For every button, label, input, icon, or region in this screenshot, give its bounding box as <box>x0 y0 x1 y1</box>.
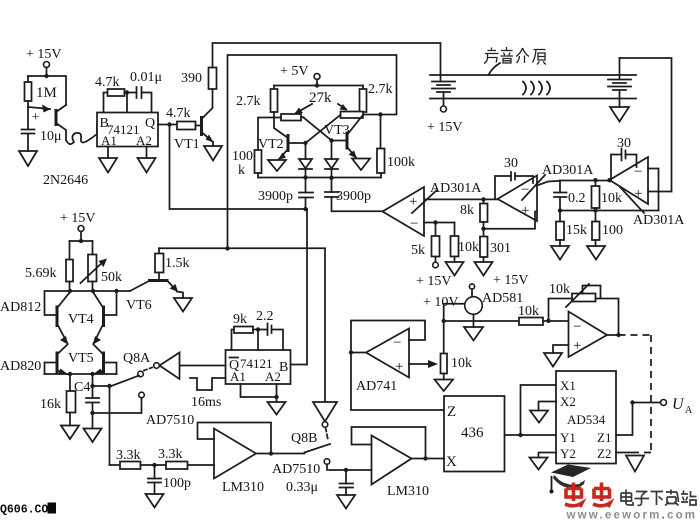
resistor 10k feedback U3 <box>592 178 623 213</box>
wire LM310-1 input <box>188 464 215 466</box>
svg-text:Z2: Z2 <box>597 446 611 461</box>
svg-text:301: 301 <box>490 241 511 256</box>
wire C4 top to switch and filter <box>93 384 112 465</box>
wire U3 minus to divider <box>648 169 659 211</box>
svg-text:100k: 100k <box>387 155 415 170</box>
svg-text:+ 15V: + 15V <box>60 211 96 226</box>
svg-text:10k: 10k <box>601 191 622 206</box>
svg-text:+ 15V: + 15V <box>427 120 463 135</box>
transistor VT4 pair right <box>93 291 117 345</box>
svg-text:−: − <box>573 319 581 335</box>
svg-text:Q: Q <box>145 116 155 131</box>
watermark site name characters <box>621 490 697 506</box>
svg-text:A: A <box>685 405 693 416</box>
svg-text:10k: 10k <box>549 282 570 297</box>
svg-text:2.7k: 2.7k <box>368 82 393 97</box>
wire U1 minus row <box>424 220 455 224</box>
svg-text:U: U <box>672 396 685 413</box>
svg-text:0.01μ: 0.01μ <box>130 70 162 85</box>
svg-text:−: − <box>410 216 418 232</box>
svg-text:10k: 10k <box>451 356 472 371</box>
potentiometer 10k <box>441 321 473 380</box>
transistor 2N2646 UJT <box>28 105 88 189</box>
ground under 100 <box>587 246 605 260</box>
capacitor 0.01u <box>130 70 162 113</box>
label AD820 <box>0 359 41 374</box>
svg-text:2.7k: 2.7k <box>236 94 261 109</box>
transistor VT1 <box>174 89 214 152</box>
svg-text:+: + <box>521 203 529 219</box>
svg-text:436: 436 <box>461 425 484 441</box>
resistor 2.7k left <box>236 86 278 118</box>
ground arrow under VT2 <box>268 160 286 171</box>
wire LM310-1 feedback <box>198 423 305 456</box>
svg-text:8k: 8k <box>460 203 474 218</box>
svg-text:+: + <box>409 194 417 210</box>
svg-text:k: k <box>238 163 245 178</box>
resistor 2.7k right <box>360 82 393 115</box>
svg-text:100: 100 <box>602 223 623 238</box>
svg-text:+ 5V: + 5V <box>280 64 309 79</box>
svg-text:4.7k: 4.7k <box>166 106 191 121</box>
ground arrow under VT3 <box>352 159 370 171</box>
transistor VT2 <box>258 118 308 161</box>
svg-text:1.5k: 1.5k <box>165 256 190 271</box>
wire emitter rail y374 <box>45 372 117 376</box>
svg-text:+: + <box>573 338 581 354</box>
wire U2 output <box>424 197 498 201</box>
capacitor C4 <box>74 374 99 429</box>
wire frame from 2.7k-right junction to VT6 bus <box>228 55 397 249</box>
switch Q8B blade AD7510 <box>272 428 330 478</box>
ground under VT6 <box>174 298 192 312</box>
node +15V left supply <box>60 211 96 243</box>
ground under C4 <box>84 429 102 443</box>
op-amp AD301A U3 (rightmost) <box>610 157 686 228</box>
capacitor 3900p right <box>325 178 383 212</box>
svg-text:LM310: LM310 <box>222 480 264 495</box>
watermark eeworm logo cap <box>550 465 592 494</box>
node +10V and reference AD581 <box>423 284 523 321</box>
svg-text:AD741: AD741 <box>356 379 397 394</box>
resistor 27k left <box>274 114 304 121</box>
svg-text:AD301A: AD301A <box>633 213 685 228</box>
svg-text:VT5: VT5 <box>68 351 94 366</box>
svg-text:+: + <box>634 186 642 202</box>
svg-text:Q8A: Q8A <box>123 351 151 366</box>
wire collector rail y291 <box>68 289 130 293</box>
wire X2 to ground <box>530 402 556 423</box>
wire LM310-2 plus input <box>329 468 372 472</box>
node +15V supply top-left <box>26 47 62 78</box>
wire right feed to amp input <box>620 58 672 192</box>
label +15V right <box>493 273 529 288</box>
wire U3 plus input <box>648 191 672 193</box>
resistor 5.69k <box>25 241 73 291</box>
svg-text:4.7k: 4.7k <box>95 75 120 90</box>
svg-text:Z: Z <box>447 404 456 420</box>
wire AD741 feedback loop <box>349 321 425 355</box>
svg-text:100p: 100p <box>163 476 191 491</box>
capacitor 100p <box>148 465 191 494</box>
potentiometer 50k <box>81 241 123 291</box>
svg-text:+ 15V: + 15V <box>493 273 529 288</box>
transistor VT3 <box>324 115 363 159</box>
switch Q8A driver arrow <box>123 351 226 379</box>
svg-text:X: X <box>446 454 457 470</box>
wire squiggle UJT B1 to 74121 B input <box>66 125 97 145</box>
svg-text:0.33μ: 0.33μ <box>286 480 318 495</box>
wire A1 A2 tie to ground <box>241 384 286 415</box>
node +5V supply <box>274 64 363 88</box>
waveform 16ms <box>190 378 226 410</box>
svg-text:A1: A1 <box>230 369 246 384</box>
svg-text:10k: 10k <box>458 240 479 255</box>
resistor 4.7k over 74121 <box>95 75 137 113</box>
wire LM310-2 feedback <box>352 427 445 461</box>
wire 436 output to Y1 and X1 jumper <box>505 385 557 437</box>
resistor 3.3k first <box>110 448 167 469</box>
wire AD741 plus to pot wiper <box>409 360 438 368</box>
label sound medium (Chinese) <box>484 47 546 74</box>
diode right <box>325 141 338 178</box>
op-amp LM310 buffer 1 <box>214 429 264 496</box>
wire divider rail <box>560 210 659 212</box>
wire top rail of 1M block <box>28 76 66 105</box>
resistor 10k series <box>518 304 569 325</box>
wire cross-coupling <box>304 115 341 143</box>
svg-text:0.2: 0.2 <box>568 191 586 206</box>
ground under 16k <box>61 426 79 440</box>
ground under pot <box>435 380 454 392</box>
svg-text:−: − <box>634 164 642 180</box>
ground under 100p <box>146 494 164 508</box>
wire VT6 collector bus <box>159 246 325 250</box>
resistor 10k (U1 minus to gnd) <box>451 223 480 263</box>
transistor VT5 pair left <box>45 345 94 375</box>
label 27k with pointer arrows <box>294 90 348 115</box>
wire U3 output <box>560 178 612 182</box>
svg-text:15k: 15k <box>566 223 587 238</box>
transducer left (transmit) <box>427 82 463 136</box>
svg-text:2N2646: 2N2646 <box>43 173 88 188</box>
wire medium line upper <box>430 74 636 76</box>
svg-text:3.3k: 3.3k <box>158 447 183 462</box>
ground under 0.33u <box>337 495 355 509</box>
svg-text:X2: X2 <box>560 394 576 409</box>
IC AD534 multiplier <box>556 371 616 464</box>
svg-text:Q8B: Q8B <box>291 431 317 446</box>
transistor VT4 pair left <box>45 291 94 345</box>
ground under 301 <box>475 262 493 276</box>
svg-text:VT4: VT4 <box>68 312 94 327</box>
svg-text:1M: 1M <box>36 85 57 101</box>
svg-text:VT6: VT6 <box>126 298 152 313</box>
svg-text:A2: A2 <box>265 369 281 384</box>
wire B-input net down to 74121B <box>306 209 308 365</box>
capacitor 10u <box>22 107 62 151</box>
svg-text:5.69k: 5.69k <box>25 266 57 281</box>
svg-text:390: 390 <box>181 71 202 86</box>
IC 74121 monostable A1 <box>97 113 158 149</box>
resistor 100k right <box>377 115 415 178</box>
watermark Q606.COM <box>0 503 56 517</box>
svg-text:Q606.CO: Q606.CO <box>0 504 48 517</box>
svg-text:16ms: 16ms <box>191 395 221 410</box>
svg-text:AD301A: AD301A <box>542 163 594 178</box>
svg-text:+ 10V: + 10V <box>423 295 459 310</box>
resistor 4.7k base VT1 <box>166 106 201 130</box>
wire Z1 to output terminal <box>616 400 667 436</box>
wire B input <box>291 364 308 366</box>
ground under 10u <box>19 151 37 166</box>
label AD812 <box>0 300 41 315</box>
svg-text:30: 30 <box>617 136 631 151</box>
capacitor 30 feedback U3 <box>611 136 637 180</box>
wire Q output node <box>158 122 177 126</box>
resistor 10k feedback output stage <box>549 282 619 335</box>
svg-text:AD820: AD820 <box>0 359 41 374</box>
wire top bus to left transducer <box>213 43 441 82</box>
svg-text:Y1: Y1 <box>560 430 576 445</box>
svg-text:−: − <box>393 335 401 351</box>
svg-text:AD7510: AD7510 <box>146 413 194 428</box>
svg-text:3900p: 3900p <box>258 189 293 204</box>
resistor 8k <box>460 199 488 231</box>
watermark chongchong red characters <box>565 483 610 508</box>
ground under 10k <box>446 262 464 276</box>
svg-text:www.eeworm.com: www.eeworm.com <box>566 510 698 521</box>
svg-text:C4: C4 <box>74 380 90 395</box>
svg-text:2.2: 2.2 <box>256 309 274 324</box>
svg-text:100: 100 <box>232 149 253 164</box>
op-amp AD301A U1 (leftmost) <box>383 181 483 236</box>
resistor 100k left <box>232 118 274 179</box>
svg-text:50k: 50k <box>101 270 122 285</box>
capacitor 30 feedback U2 <box>495 156 533 199</box>
label UA output <box>672 396 693 416</box>
resistor 100 <box>592 211 623 247</box>
IC 74121B monostable <box>226 350 291 384</box>
capacitor 0.33u <box>286 470 353 495</box>
wire emitter rail y177.5 <box>258 175 381 180</box>
svg-text:9k: 9k <box>233 312 247 327</box>
svg-text:+ 15V: + 15V <box>416 274 452 289</box>
capacitor 0.2 <box>554 181 586 213</box>
wire medium line lower <box>430 98 636 100</box>
sound waves <box>523 82 550 95</box>
resistor 5k <box>411 223 452 290</box>
resistor 1.5k <box>155 248 190 278</box>
wire Q output down to 3900p bottom rail <box>170 125 308 210</box>
resistor 3.3k second <box>158 447 188 469</box>
switch Q8A blade AD7510 <box>93 368 195 429</box>
capacitor 3900p left <box>258 178 313 212</box>
svg-text:+: + <box>395 359 403 375</box>
wire output node with dashed link <box>607 333 651 453</box>
ground under right transducer <box>610 107 629 122</box>
ground under 15k <box>551 246 569 260</box>
svg-text:16k: 16k <box>40 397 61 412</box>
op-amp output stage (right) <box>569 312 608 358</box>
svg-text:10μ: 10μ <box>40 129 62 144</box>
switch Q8B driver arrow <box>291 249 337 447</box>
ground under AD581 <box>464 321 483 341</box>
wire AD741 output to divider Z <box>351 353 444 411</box>
resistor 9k <box>232 312 268 350</box>
svg-text:X1: X1 <box>560 378 576 393</box>
transducer right (receive) <box>608 58 631 107</box>
wire U2 minus input from U3 out <box>537 181 560 186</box>
capacitor 2.2 <box>256 309 283 350</box>
op-amp LM310 buffer 2 <box>372 436 430 500</box>
transistor VT5 pair right <box>94 345 117 375</box>
svg-text:Y2: Y2 <box>560 446 576 461</box>
watermark www.eeworm.com <box>566 510 698 521</box>
wire Z2 to ground <box>616 453 644 472</box>
wire Y2 to ground <box>530 453 557 470</box>
resistor 1M <box>25 76 57 107</box>
svg-text:Z1: Z1 <box>597 430 611 445</box>
wire reference rail <box>442 319 520 323</box>
svg-text:AD7510: AD7510 <box>272 462 320 477</box>
svg-text:VT1: VT1 <box>174 137 200 152</box>
wire U2 plus input from 8k node <box>484 212 538 229</box>
svg-text:3900p: 3900p <box>336 189 371 204</box>
wire A2 pin to ground <box>138 147 156 173</box>
transistor VT6 <box>126 281 183 314</box>
svg-text:AD301A: AD301A <box>430 181 482 196</box>
resistor 16k <box>40 374 76 426</box>
svg-text:LM310: LM310 <box>387 484 429 499</box>
wire A1 pin to ground <box>99 147 117 173</box>
wire plus input to ground <box>544 345 569 367</box>
svg-text:+ 15V: + 15V <box>26 47 62 62</box>
svg-text:A1: A1 <box>101 133 117 148</box>
IC 436 divider <box>444 396 505 472</box>
resistor 301 <box>480 229 511 262</box>
ground under VT1 <box>204 142 222 161</box>
svg-text:+: + <box>32 110 40 125</box>
diode left <box>299 143 312 178</box>
op-amp AD301A U2 (middle) <box>498 163 595 221</box>
resistor 390 <box>181 68 217 90</box>
svg-text:30: 30 <box>504 156 518 171</box>
op-amp AD741 <box>356 329 409 395</box>
svg-text:5k: 5k <box>411 243 425 258</box>
svg-text:AD534: AD534 <box>567 412 606 427</box>
resistor 15k <box>556 211 587 247</box>
svg-text:AD812: AD812 <box>0 300 41 315</box>
resistor 27k right <box>341 112 364 119</box>
svg-text:A2: A2 <box>136 133 152 148</box>
